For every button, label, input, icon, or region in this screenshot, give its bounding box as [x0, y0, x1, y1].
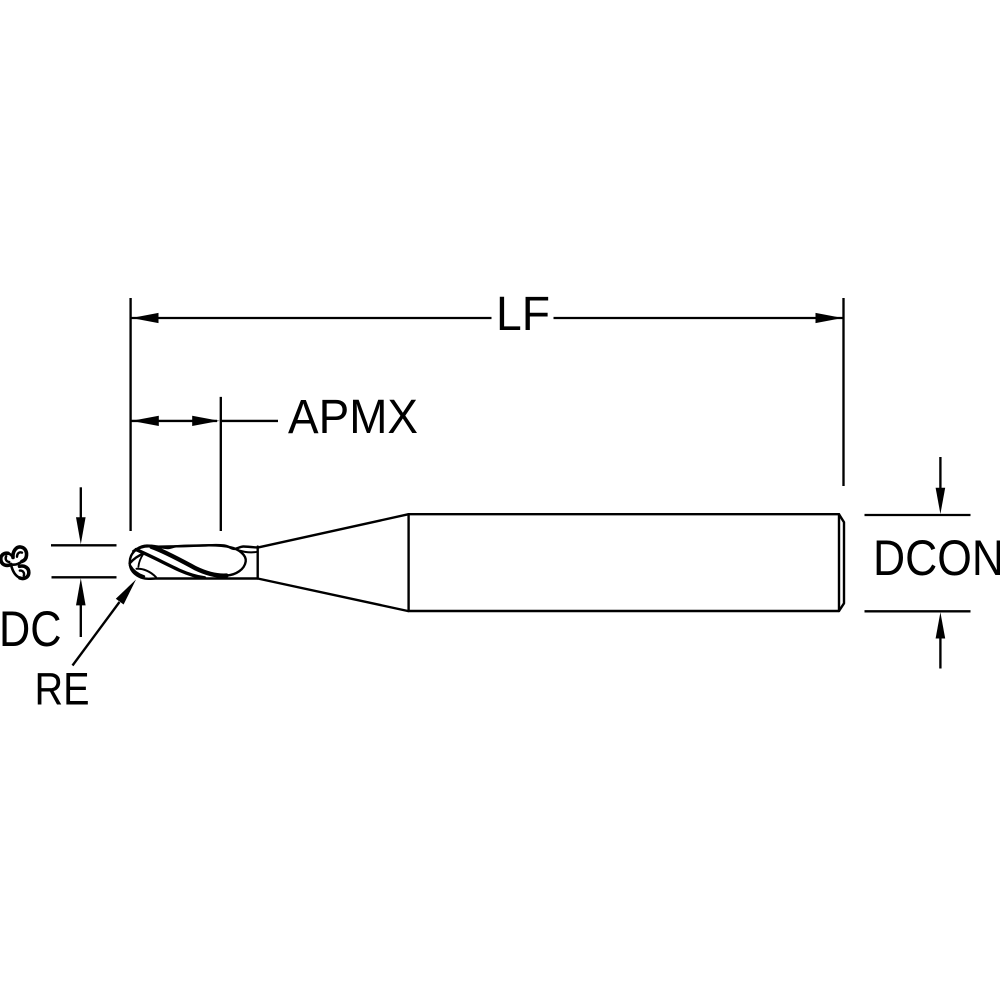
- ball lower lobe: [130, 566, 144, 577]
- 3-flute end-view icon: [1, 547, 29, 579]
- ball tip cutting edge: [130, 553, 144, 563]
- arrowhead LF left: [132, 313, 159, 323]
- flute face oval: [152, 545, 246, 575]
- DC dimension bottom line: [52, 576, 117, 578]
- shank left edge: [407, 514, 409, 611]
- tool body: [130, 514, 844, 611]
- DC top arrowhead: [76, 517, 86, 544]
- extension line right (LF end): [842, 298, 844, 486]
- DCON dimension top line: [865, 514, 971, 516]
- dimension line APMX: [132, 420, 218, 422]
- neck junction line: [257, 547, 259, 579]
- tool silhouette: ball nose, flute body, neck taper, shank with chamfered end: [130, 514, 844, 611]
- flute wisp near neck: [233, 548, 258, 553]
- shank chamfer inner edge: [838, 514, 840, 611]
- svg-text:LF: LF: [496, 287, 550, 341]
- DC bottom arrowhead: [76, 578, 86, 605]
- DCON bottom arrowhead: [936, 612, 946, 638]
- extension tick APMX: [220, 397, 222, 531]
- DC top arrow stem: [80, 487, 82, 518]
- arrowhead APMX left: [132, 416, 159, 426]
- arrowhead LF right: [816, 313, 843, 323]
- DC dimension top line: [51, 544, 117, 546]
- RE leader line: [73, 602, 120, 666]
- arrowhead APMX right: [192, 416, 219, 426]
- flute spiral edge lower: [136, 550, 205, 578]
- flute spiral edge main: [152, 547, 227, 576]
- svg-text:APMX: APMX: [288, 390, 418, 444]
- ball crest inner line: [133, 546, 150, 551]
- DC bottom arrow stem: [80, 605, 82, 637]
- dimension line LF left segment: [132, 317, 492, 319]
- RE leader arrowhead: [116, 580, 136, 605]
- leader line APMX: [221, 420, 278, 422]
- DCON bottom arrow stem: [939, 638, 941, 669]
- DCON top arrow stem: [939, 457, 941, 489]
- svg-text:DC: DC: [0, 600, 62, 657]
- DCON top arrowhead: [936, 488, 946, 514]
- extension line left (LF/APMX origin): [129, 298, 131, 531]
- ball lower lobe inner: [137, 569, 157, 577]
- svg-text:DCON: DCON: [873, 530, 1000, 586]
- dimension line LF right segment: [554, 317, 843, 319]
- svg-text:RE: RE: [35, 664, 90, 715]
- ball tip gash: [138, 554, 143, 567]
- DCON dimension bottom line: [865, 610, 971, 612]
